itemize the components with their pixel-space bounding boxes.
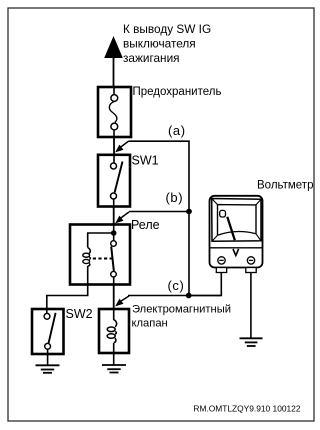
svg-text:Электромагнитный: Электромагнитный [132,304,231,316]
svg-text:(b): (b) [166,190,184,205]
ground below solenoid valve [102,353,126,373]
V mark [233,249,239,256]
body divider [210,247,262,249]
svg-text:(c): (c) [168,278,185,293]
svg-text:зажигания: зажигания [123,51,180,65]
display inner [218,205,257,236]
svg-text:выключателя: выключателя [123,37,196,51]
wire voltmeter right lead to ground [250,273,252,339]
node (a) pointer [115,141,189,295]
terminal post right [246,268,256,273]
svg-text:SW2: SW2 [66,307,93,321]
body [210,196,263,268]
wire relay coil to SW2 [47,285,88,310]
svg-text:(a): (a) [168,123,186,138]
bezel outer [212,199,261,242]
relay contact [111,241,117,247]
switch SW1 [98,155,130,207]
wire relay to solenoid valve [113,285,115,310]
relay coil [88,248,91,254]
label Электромагнитный клапан [132,304,232,330]
relay dashed link [93,258,112,260]
fuse (Предохранитель) [98,87,131,137]
minus terminal right [247,257,254,264]
solenoid valve (Электромагнитный клапан) [99,309,129,353]
svg-text:Реле: Реле [131,218,160,232]
svg-text:Предохранитель: Предохранитель [133,86,222,98]
svg-text:К выводу SW IG: К выводу SW IG [123,22,211,36]
ground below SW2 [36,354,60,373]
solenoid coil [114,320,117,328]
terminal post left [216,268,226,273]
junction dot c [186,293,192,299]
relay [70,225,130,285]
ground below voltmeter [240,338,263,346]
node (c) pointer [115,296,221,307]
label: К выводу SW IG выключателя зажигания [123,22,211,65]
switch SW2 [32,309,64,354]
svg-text:SW1: SW1 [132,154,159,168]
svg-text:клапан: клапан [132,318,168,330]
junction dot b [186,209,192,215]
pivot mark [220,210,226,217]
arrow to SW IG terminal [104,36,123,87]
svg-text:RM.OMTLZQY9.910 100122: RM.OMTLZQY9.910 100122 [193,404,300,414]
wire voltmeter left lead to node c [189,273,221,296]
svg-text:Вольтметр: Вольтметр [257,180,313,192]
voltmeter U1 [210,196,263,273]
wire SW1 to relay [113,207,115,225]
scale arc [218,232,257,236]
node (b) pointer [115,212,189,224]
bevel corners [212,199,218,205]
needle [227,217,235,240]
wire fuse to SW1 [113,137,115,155]
minus terminal left [218,257,225,264]
